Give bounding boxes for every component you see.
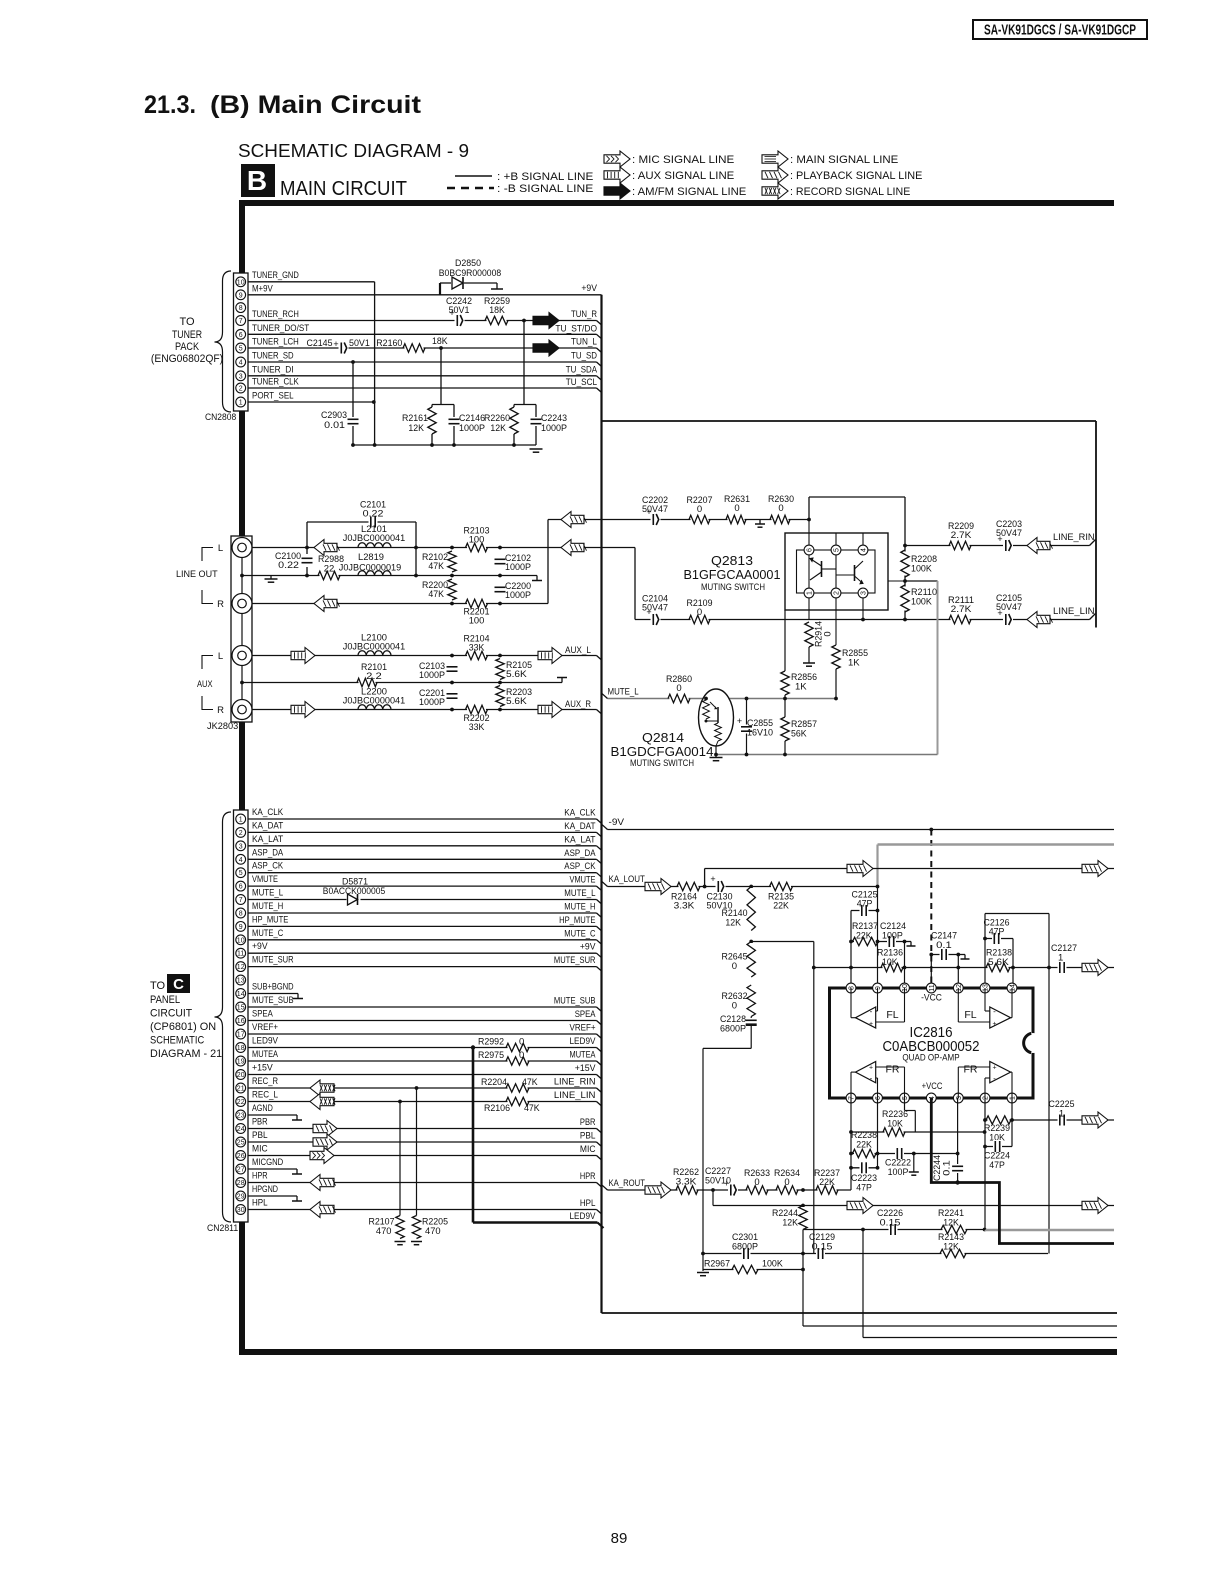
svg-text:TUNER_GND: TUNER_GND — [252, 270, 299, 281]
resistor R2634 — [774, 1168, 800, 1196]
svg-text:1000P: 1000P — [419, 697, 445, 708]
wire -VCC dashed drop — [930, 830, 932, 989]
svg-text:6800P: 6800P — [732, 1242, 758, 1253]
svg-text:ASP_DA: ASP_DA — [252, 847, 284, 858]
svg-text:6: 6 — [807, 548, 814, 552]
svg-text:100K: 100K — [911, 597, 932, 608]
node R2634 out — [801, 1188, 805, 1192]
svg-text:12K: 12K — [725, 918, 741, 929]
svg-text:33K: 33K — [469, 722, 485, 733]
svg-text:KA_DAT: KA_DAT — [564, 821, 595, 832]
resistor R2143 — [938, 1232, 966, 1259]
node REC taps — [398, 1086, 418, 1103]
wire TUNER_LCH row — [248, 348, 602, 353]
connector CN2811 pins — [236, 814, 246, 1214]
svg-text:MAIN CIRCUIT: MAIN CIRCUIT — [280, 178, 407, 200]
pin 2 Q2813 — [831, 588, 841, 598]
node C2244 on +VCC — [955, 1180, 959, 1184]
capacitor C2200 — [494, 581, 532, 601]
resistor R2201 — [464, 598, 490, 627]
node R2140 out — [749, 940, 753, 944]
svg-text:J0JBC0000041: J0JBC0000041 — [343, 642, 405, 653]
wire pin6 column — [877, 1098, 879, 1168]
svg-text:KA_LOUT: KA_LOUT — [609, 874, 646, 885]
svg-text:21.3.: 21.3. — [144, 91, 196, 119]
svg-text:LED9V: LED9V — [252, 1036, 279, 1047]
svg-text:18K: 18K — [489, 305, 505, 316]
node R2244 top — [801, 1204, 805, 1208]
svg-text:R2204: R2204 — [481, 1077, 507, 1088]
op-amp FL left — [851, 988, 905, 1028]
svg-text:B1GFGCAA0001: B1GFGCAA0001 — [684, 568, 781, 582]
resistor R2164 — [671, 881, 700, 912]
resistor R2104 — [464, 634, 490, 662]
svg-text:50V47: 50V47 — [996, 528, 1022, 539]
arrow AUX R in — [291, 702, 315, 718]
svg-text:+: + — [869, 1021, 873, 1028]
svg-text:HPR: HPR — [580, 1171, 596, 1182]
svg-text:21: 21 — [237, 1086, 245, 1093]
bracket AUX — [202, 656, 213, 710]
wire TUNER_DO/ST row — [248, 334, 602, 339]
resistor R2236 — [882, 1109, 908, 1138]
resistor R2259 — [484, 296, 510, 326]
svg-text:8: 8 — [239, 305, 243, 312]
svg-text:VREF+: VREF+ — [570, 1023, 596, 1034]
svg-text:18K: 18K — [432, 336, 448, 347]
svg-text:C: C — [173, 976, 184, 993]
node R2236 joints — [849, 1130, 986, 1134]
svg-text:0.01: 0.01 — [324, 420, 345, 431]
wire pin1 column — [1011, 1098, 1013, 1147]
capacitor C2244 — [932, 1155, 964, 1181]
svg-text:4: 4 — [861, 548, 868, 552]
node C2147 joints — [929, 953, 960, 957]
svg-text:KA_DAT: KA_DAT — [252, 820, 283, 831]
wire vref rail row — [814, 967, 1114, 969]
node R2239 joints — [983, 1118, 1014, 1122]
wire RC filter branch R2259 — [514, 321, 536, 418]
resistor R2140 — [722, 887, 757, 931]
svg-text:FL: FL — [964, 1009, 976, 1021]
svg-text:0: 0 — [784, 1177, 789, 1188]
capacitor C2243 — [530, 413, 568, 434]
wire LINE OUT R row — [252, 603, 548, 605]
svg-text:14: 14 — [237, 991, 245, 998]
net labels CN2811 right — [554, 808, 596, 1210]
node C2224 joints — [983, 1145, 987, 1149]
arrow playback LINE_RIN — [1027, 538, 1053, 554]
termination MICGND — [292, 1169, 302, 1174]
svg-text:TU_SCL: TU_SCL — [566, 377, 597, 388]
svg-text:1: 1 — [1010, 1096, 1017, 1100]
resistor R2856 — [780, 671, 818, 695]
inductor L2101 — [343, 524, 405, 548]
node R row joints — [450, 602, 502, 606]
svg-text:HPL: HPL — [580, 1198, 596, 1209]
svg-text:1: 1 — [239, 817, 243, 824]
wire cap row bottom — [703, 1253, 1048, 1255]
svg-text:R2992: R2992 — [478, 1037, 504, 1048]
svg-text:8: 8 — [849, 986, 856, 990]
svg-text:PBL: PBL — [580, 1131, 596, 1142]
svg-text:Q2813: Q2813 — [711, 553, 753, 568]
node fb row joints — [861, 1228, 986, 1232]
svg-text:22: 22 — [237, 1099, 245, 1106]
net label KA_LOUT — [609, 874, 646, 885]
svg-text:5: 5 — [239, 870, 243, 877]
wire TUNER_SD row — [248, 362, 602, 367]
svg-text:100: 100 — [469, 616, 485, 627]
net label LINE_LIN — [1053, 606, 1095, 617]
svg-text:KA_LAT: KA_LAT — [252, 834, 283, 845]
outer frame top border — [239, 200, 1114, 206]
svg-text:KA_CLK: KA_CLK — [564, 808, 596, 819]
label D2850 — [439, 258, 501, 279]
wire LINE OUT L row — [252, 548, 635, 620]
label Q2814 — [611, 730, 714, 768]
svg-text:6: 6 — [875, 1096, 882, 1100]
schematic diagram label — [238, 140, 469, 161]
wire C2101 parallel loop — [307, 522, 416, 576]
svg-text:R: R — [217, 599, 224, 610]
svg-text:TUNER_CLK: TUNER_CLK — [252, 377, 299, 388]
svg-text:: MAIN SIGNAL LINE: : MAIN SIGNAL LINE — [790, 154, 898, 166]
svg-text:SA-VK91DGCS / SA-VK91DGCP: SA-VK91DGCS / SA-VK91DGCP — [984, 23, 1136, 39]
svg-text:12K: 12K — [490, 423, 506, 434]
termination C2147 — [958, 955, 969, 960]
wire -9V row — [602, 824, 1114, 829]
arrow TUN_R — [533, 313, 559, 329]
wire R2855 column — [835, 669, 837, 699]
svg-text:4: 4 — [239, 857, 243, 864]
capacitor C2301 — [732, 1232, 758, 1260]
resistor R2244 — [772, 1206, 809, 1230]
svg-text:SPEA: SPEA — [252, 1009, 273, 1020]
wire KA_LOUT row — [602, 881, 878, 886]
legend AM/FM arrow — [604, 183, 746, 199]
capacitor C2126 — [984, 918, 1010, 946]
svg-text:: AUX SIGNAL LINE: : AUX SIGNAL LINE — [632, 170, 734, 182]
svg-text:LINE_LIN: LINE_LIN — [1053, 606, 1095, 617]
page header model box — [973, 20, 1147, 39]
node TUNER_SD C2903 tap — [351, 360, 355, 364]
arrow playback PBL — [313, 1134, 337, 1150]
capacitor C2147 — [931, 931, 957, 962]
svg-text:33K: 33K — [469, 643, 485, 654]
svg-text:0: 0 — [697, 504, 702, 515]
transistor array Q2813 body — [785, 533, 888, 610]
svg-text:MUTE_C: MUTE_C — [564, 928, 595, 939]
resistor R2101 — [357, 662, 387, 688]
svg-text:2.7K: 2.7K — [951, 530, 973, 541]
svg-text:25: 25 — [237, 1140, 245, 1147]
svg-text:MUTING SWITCH: MUTING SWITCH — [701, 582, 765, 592]
svg-text:15: 15 — [237, 1005, 245, 1012]
svg-text:M+9V: M+9V — [252, 283, 273, 294]
wire AUX mid row — [242, 682, 562, 684]
svg-text:R2975: R2975 — [478, 1050, 504, 1061]
resistor R2111 — [948, 595, 974, 625]
resistor R2203 — [495, 686, 533, 708]
node AUX joints — [240, 654, 502, 712]
wire pin3 column — [957, 1098, 959, 1183]
svg-text:7: 7 — [849, 1096, 856, 1100]
termination C2124 — [905, 942, 916, 947]
svg-text:KA_CLK: KA_CLK — [252, 807, 284, 818]
svg-text:3: 3 — [956, 1096, 963, 1100]
svg-text:4: 4 — [239, 360, 243, 367]
wire C2855 column — [746, 699, 748, 755]
svg-text:KA_ROUT: KA_ROUT — [609, 1178, 646, 1189]
arrow playback LINE_LIN — [1027, 612, 1053, 628]
ground R2205 — [411, 1242, 422, 1245]
net label LED9V bottom — [570, 1211, 597, 1222]
svg-text:+9V: +9V — [580, 942, 596, 953]
svg-text:12: 12 — [237, 964, 245, 971]
svg-text:C2145: C2145 — [307, 338, 333, 349]
svg-text:MICGND: MICGND — [252, 1157, 283, 1168]
node R2208 R2110 junction — [903, 579, 907, 583]
resistor R2967 — [704, 1259, 783, 1276]
svg-text:16: 16 — [237, 1018, 245, 1025]
svg-text:+: + — [992, 1065, 996, 1072]
transistor Q2814 internals — [703, 700, 722, 746]
svg-text:3: 3 — [861, 591, 868, 595]
resistor R2136 — [877, 948, 903, 974]
svg-text:1000P: 1000P — [459, 423, 485, 434]
svg-text:LINE_RIN: LINE_RIN — [554, 1077, 596, 1088]
resistor R2630 — [768, 494, 794, 525]
capacitor C2100 — [275, 551, 314, 571]
resistor R2103 — [464, 526, 490, 554]
svg-text:TUNER: TUNER — [172, 329, 202, 341]
svg-text:22K: 22K — [773, 901, 789, 912]
svg-text:24: 24 — [237, 1126, 245, 1133]
svg-text:R2967: R2967 — [704, 1259, 730, 1270]
pin labels CN2811 — [252, 807, 294, 1209]
svg-text:5: 5 — [239, 346, 243, 353]
page number — [611, 1530, 628, 1547]
svg-text:22: 22 — [324, 564, 335, 575]
wire C2223 row — [851, 1167, 878, 1169]
ground C2222 — [909, 1154, 919, 1176]
svg-text:3.3K: 3.3K — [674, 901, 696, 912]
wire fl right loop top — [985, 913, 1049, 915]
svg-text:50V1: 50V1 — [349, 338, 370, 349]
resistor R2207 — [687, 495, 713, 525]
svg-text:5.6K: 5.6K — [506, 669, 528, 680]
svg-text:(ENG06802QF): (ENG06802QF) — [151, 353, 223, 365]
op-amp FR left — [851, 1062, 905, 1099]
label CN2811 — [207, 1223, 238, 1234]
wire C2125 row — [851, 910, 878, 912]
svg-text:+9V: +9V — [581, 283, 597, 294]
svg-text:3.3K: 3.3K — [676, 1177, 698, 1188]
node KA_LOUT pin9 join — [876, 885, 880, 889]
transistor Q2813a — [810, 558, 836, 580]
svg-text:MUTE_H: MUTE_H — [252, 901, 283, 912]
svg-text:MUTEA: MUTEA — [252, 1049, 279, 1060]
svg-text:SCHEMATIC: SCHEMATIC — [150, 1035, 204, 1047]
resistor R2209 — [948, 521, 974, 551]
resistor R2988 — [318, 554, 344, 581]
resistor R2631 — [724, 494, 750, 525]
svg-text:-9V: -9V — [609, 817, 625, 828]
wire C2903 branch — [352, 362, 354, 445]
svg-text:PORT_SEL: PORT_SEL — [252, 391, 294, 402]
svg-text:26: 26 — [237, 1153, 245, 1160]
label CN2808 — [205, 412, 236, 423]
arrow main KA_ROUT — [645, 1182, 671, 1198]
wire Q2814 emitter to bus — [715, 746, 717, 755]
svg-text:100P: 100P — [882, 931, 903, 942]
svg-text:MUTE_SUR: MUTE_SUR — [252, 955, 294, 966]
svg-text:+: + — [333, 339, 338, 349]
arrow main lower right — [1082, 1198, 1108, 1214]
resistor R2914 — [804, 621, 834, 647]
resistor R2632 — [722, 985, 757, 1017]
svg-text:MUTE_L: MUTE_L — [252, 888, 283, 899]
wire AUX L row — [252, 656, 602, 661]
svg-text:47P: 47P — [989, 1160, 1005, 1171]
svg-text:VMUTE: VMUTE — [570, 875, 596, 886]
svg-text:20: 20 — [237, 1072, 245, 1079]
termination tick sleeve return — [532, 576, 542, 581]
svg-text:50V47: 50V47 — [642, 603, 668, 614]
svg-text:1: 1 — [1059, 1109, 1064, 1120]
capacitor C2225 — [1049, 1099, 1075, 1127]
svg-text:10: 10 — [237, 937, 245, 944]
legend MAIN arrow — [762, 151, 898, 167]
svg-text:47P: 47P — [856, 1183, 872, 1194]
ground Q2814 — [710, 755, 723, 761]
svg-text:0: 0 — [732, 1001, 737, 1012]
capacitor C2202 — [642, 495, 668, 526]
svg-text:100K: 100K — [911, 564, 932, 575]
wire pin13 column — [984, 914, 986, 989]
svg-text:FL: FL — [886, 1009, 898, 1021]
pin 5 Q2813 — [831, 545, 841, 555]
wire R2236 row — [851, 1131, 985, 1133]
wire R2140 to vref rail — [751, 941, 814, 943]
svg-text:PBR: PBR — [580, 1117, 596, 1128]
termination SUB+BGND — [293, 994, 303, 999]
svg-text:: AM/FM SIGNAL LINE: : AM/FM SIGNAL LINE — [632, 186, 746, 198]
capacitor C2224 — [984, 1140, 1010, 1171]
svg-text:ASP_CK: ASP_CK — [564, 861, 596, 872]
wire R2630 to top jog — [809, 497, 905, 546]
legend +B signal line — [455, 171, 593, 183]
legend AUX arrow — [604, 167, 734, 183]
arrow record REC_L — [310, 1094, 335, 1110]
svg-text:-: - — [870, 1074, 873, 1083]
wire TUNER_RCH row — [248, 321, 602, 326]
ground stub mid C2202 row — [755, 520, 765, 528]
svg-text:TUNER_DO/ST: TUNER_DO/ST — [252, 323, 309, 334]
wire C2202 spur — [548, 520, 602, 604]
svg-text:5.6K: 5.6K — [988, 957, 1010, 968]
svg-text:470: 470 — [425, 1226, 441, 1237]
svg-text:TU_SD: TU_SD — [571, 351, 597, 362]
label TO C PANEL CIRCUIT — [150, 974, 222, 1060]
svg-text:2: 2 — [239, 830, 243, 837]
wire long center drop — [813, 942, 815, 1254]
wire R2238 C2222 row — [851, 1153, 958, 1155]
svg-text:3: 3 — [239, 373, 243, 380]
svg-text:MUTE_H: MUTE_H — [564, 902, 595, 913]
inductor L2200 — [343, 687, 405, 710]
svg-text:1000P: 1000P — [505, 590, 531, 601]
svg-text:CIRCUIT: CIRCUIT — [150, 1008, 192, 1020]
capacitor C2102 — [494, 553, 532, 573]
svg-text:0: 0 — [823, 631, 834, 636]
svg-text:PANEL: PANEL — [150, 994, 180, 1006]
inductor L2819 — [339, 552, 401, 576]
wire LINE_LIN row — [635, 614, 1096, 620]
svg-text:0: 0 — [676, 683, 681, 694]
svg-text:0.22: 0.22 — [363, 509, 384, 520]
resistor R2262 — [673, 1167, 699, 1196]
svg-text:MUTE_SUB: MUTE_SUB — [252, 995, 294, 1006]
wire pin5 jog — [905, 1098, 916, 1132]
wire pin14 column — [1012, 939, 1014, 989]
svg-text:KA_LAT: KA_LAT — [564, 834, 595, 845]
node R2630 to pin6 — [807, 518, 811, 522]
wire REC_L pulldown column — [399, 1102, 401, 1216]
arrow playback HPR — [310, 1175, 336, 1191]
arrow TUN_L — [533, 340, 559, 356]
svg-text:10: 10 — [902, 984, 909, 992]
svg-text:CN2808: CN2808 — [205, 412, 236, 423]
pin 3 Q2813 — [858, 588, 868, 598]
svg-text:11: 11 — [237, 951, 244, 958]
label Q2813 — [684, 553, 781, 592]
pin 6 Q2813 — [804, 545, 814, 555]
arrow AUX L in — [291, 648, 315, 664]
wire exit line mid — [803, 1230, 1117, 1327]
arrow mic MIC — [310, 1148, 334, 1164]
net label LINE_RIN — [1053, 532, 1095, 543]
svg-text:FR: FR — [886, 1064, 900, 1076]
wire sleeve return row — [242, 575, 537, 577]
svg-text:13: 13 — [237, 978, 245, 985]
resistor R2204 — [481, 1077, 538, 1094]
svg-text:12K: 12K — [943, 1218, 959, 1229]
svg-text:TU_SDA: TU_SDA — [566, 364, 598, 375]
svg-text:AUX_L: AUX_L — [565, 645, 591, 656]
wire mute bottom bus — [716, 754, 938, 756]
svg-text:14: 14 — [1010, 984, 1017, 992]
wire fb row lower — [803, 1229, 985, 1231]
resistor R2102 — [422, 551, 458, 572]
arrow playback R from line_rin — [561, 512, 587, 528]
node PORT_SEL gnd tie — [372, 400, 376, 404]
wire C2147 row — [931, 954, 958, 956]
ground under C2243 — [530, 449, 543, 452]
svg-text:12: 12 — [956, 984, 963, 992]
svg-text:47K: 47K — [428, 561, 444, 572]
svg-text:J0JBC0000019: J0JBC0000019 — [339, 563, 401, 574]
svg-text:MUTE_L: MUTE_L — [564, 888, 595, 899]
jack AUX R — [232, 700, 252, 720]
net label KA_ROUT — [609, 1178, 646, 1189]
svg-text:J0JBC0000041: J0JBC0000041 — [343, 696, 405, 707]
jack LINE OUT R — [232, 594, 252, 614]
capacitor C2146 — [448, 413, 486, 434]
svg-text:22K: 22K — [856, 931, 872, 942]
wire LED9V heavy drop — [473, 1048, 604, 1229]
